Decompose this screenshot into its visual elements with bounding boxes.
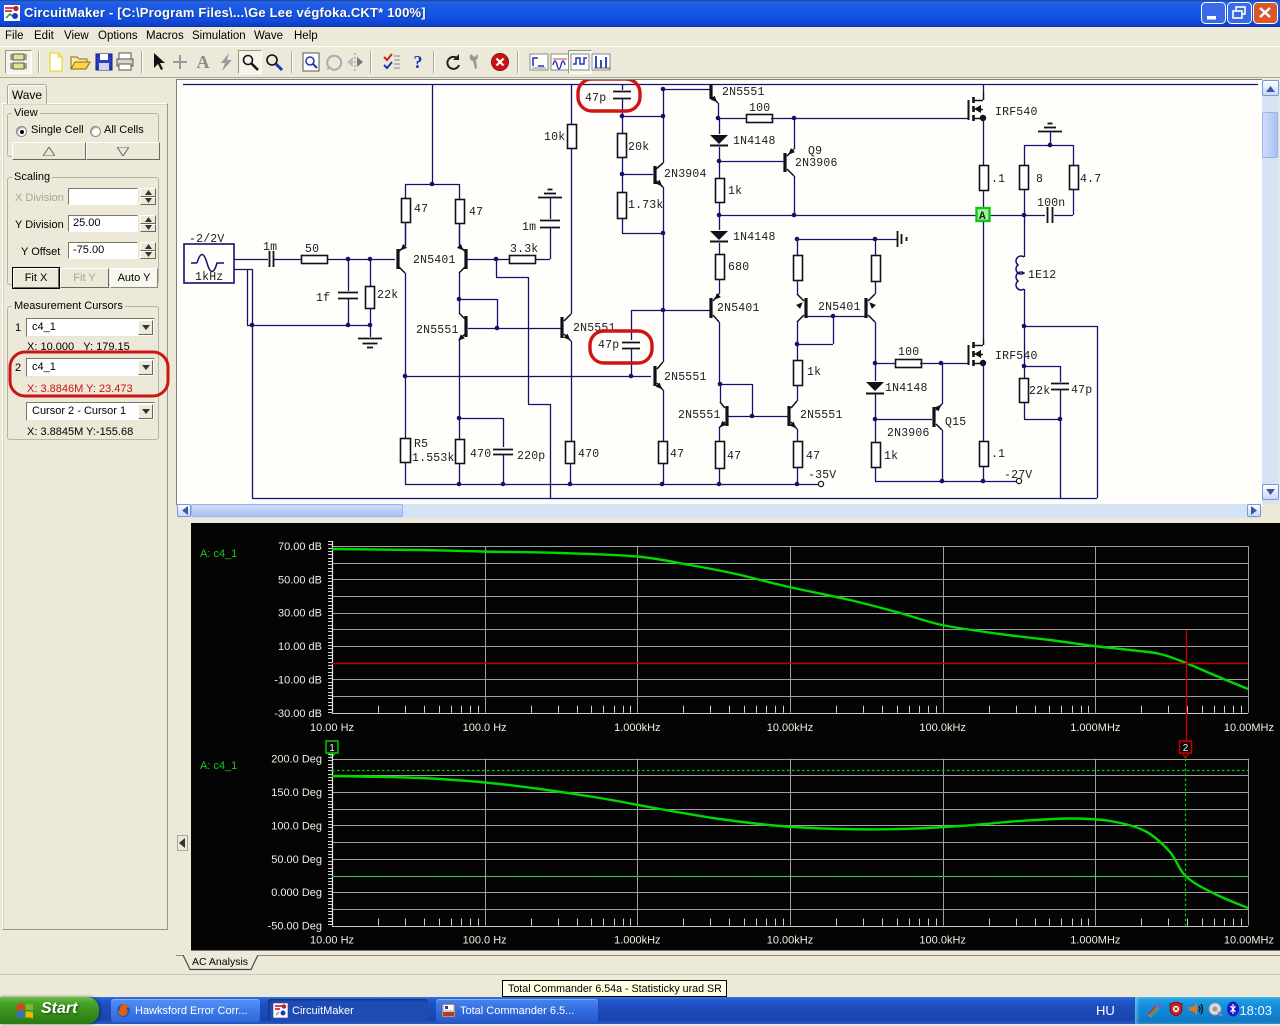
svg-text:47p: 47p	[585, 92, 606, 105]
svg-text:10.00 Hz: 10.00 Hz	[310, 722, 354, 734]
svg-text:1.000kHz: 1.000kHz	[614, 935, 660, 947]
svg-text:470: 470	[470, 448, 491, 461]
svg-text:2N5551: 2N5551	[800, 409, 843, 422]
svg-text:4.7: 4.7	[1080, 173, 1101, 186]
svg-text:1kHz: 1kHz	[195, 271, 223, 284]
svg-text:-10.00 dB: -10.00 dB	[274, 674, 322, 686]
svg-text:.1: .1	[991, 173, 1005, 186]
svg-text:-2/2V: -2/2V	[189, 233, 225, 246]
svg-text:47p: 47p	[598, 339, 619, 352]
svg-text:22k: 22k	[1029, 385, 1050, 398]
svg-text:10.00 Hz: 10.00 Hz	[310, 935, 354, 947]
svg-text:1k: 1k	[728, 185, 742, 198]
svg-text:-30.00 dB: -30.00 dB	[274, 708, 322, 720]
svg-text:100.0 Deg: 100.0 Deg	[271, 820, 322, 832]
svg-text:100.0kHz: 100.0kHz	[919, 722, 965, 734]
svg-text:A: c4_1: A: c4_1	[200, 548, 237, 560]
svg-text:1.73k: 1.73k	[628, 199, 664, 212]
svg-text:-50.00 Deg: -50.00 Deg	[268, 921, 322, 933]
svg-text:100n: 100n	[1037, 197, 1065, 210]
svg-text:-35V: -35V	[808, 469, 836, 482]
svg-text:1E12: 1E12	[1028, 269, 1056, 282]
svg-text:2: 2	[1183, 743, 1189, 754]
svg-text:1.000MHz: 1.000MHz	[1070, 935, 1120, 947]
svg-text:2N5551: 2N5551	[416, 324, 459, 337]
svg-text:3.3k: 3.3k	[510, 243, 538, 256]
svg-text:1.553k: 1.553k	[412, 452, 455, 465]
svg-text:50: 50	[305, 243, 319, 256]
svg-text:10.00kHz: 10.00kHz	[767, 935, 813, 947]
svg-text:50.00 Deg: 50.00 Deg	[271, 854, 322, 866]
svg-text:47: 47	[670, 448, 684, 461]
svg-text:1f: 1f	[316, 292, 330, 305]
svg-text:1k: 1k	[884, 450, 898, 463]
svg-text:220p: 220p	[517, 450, 545, 463]
svg-text:100.0 Hz: 100.0 Hz	[463, 935, 507, 947]
svg-text:1m: 1m	[263, 241, 277, 254]
svg-text:22k: 22k	[377, 289, 398, 302]
svg-text:8: 8	[1036, 173, 1043, 186]
svg-text:47: 47	[469, 206, 483, 219]
svg-text:A: A	[979, 211, 986, 223]
svg-text:10k: 10k	[544, 131, 565, 144]
svg-text:.1: .1	[991, 448, 1005, 461]
svg-text:10.00MHz: 10.00MHz	[1224, 722, 1274, 734]
svg-text:10.00MHz: 10.00MHz	[1224, 935, 1274, 947]
svg-text:2N3906: 2N3906	[795, 157, 838, 170]
svg-text:2N5551: 2N5551	[722, 86, 765, 99]
svg-text:-27V: -27V	[1004, 469, 1032, 482]
svg-text:2N3904: 2N3904	[664, 168, 707, 181]
svg-text:1N4148: 1N4148	[733, 231, 776, 244]
svg-text:1.000kHz: 1.000kHz	[614, 722, 660, 734]
svg-text:100.0kHz: 100.0kHz	[919, 935, 965, 947]
svg-text:2N5401: 2N5401	[413, 254, 456, 267]
svg-text:47p: 47p	[1071, 384, 1092, 397]
svg-text:47: 47	[414, 203, 428, 216]
svg-text:IRF540: IRF540	[995, 350, 1038, 363]
svg-text:10.00 dB: 10.00 dB	[278, 641, 322, 653]
svg-text:2N5551: 2N5551	[678, 409, 721, 422]
svg-text:30.00 dB: 30.00 dB	[278, 608, 322, 620]
svg-text:47: 47	[727, 450, 741, 463]
svg-text:100: 100	[898, 346, 919, 359]
svg-text:1k: 1k	[807, 366, 821, 379]
svg-text:150.0 Deg: 150.0 Deg	[271, 787, 322, 799]
svg-text:IRF540: IRF540	[995, 106, 1038, 119]
svg-text:0.000 Deg: 0.000 Deg	[271, 887, 322, 899]
svg-text:10.00kHz: 10.00kHz	[767, 722, 813, 734]
svg-text:100: 100	[749, 102, 770, 115]
svg-text:R5: R5	[414, 438, 428, 451]
svg-text:2N3906: 2N3906	[887, 427, 930, 440]
svg-text:50.00 dB: 50.00 dB	[278, 574, 322, 586]
svg-text:2N5551: 2N5551	[664, 371, 707, 384]
svg-text:47: 47	[806, 450, 820, 463]
svg-text:A: A	[197, 52, 210, 72]
svg-text:1: 1	[329, 743, 335, 754]
svg-text:100.0 Hz: 100.0 Hz	[463, 722, 507, 734]
svg-text:Q15: Q15	[945, 416, 966, 429]
svg-text:200.0 Deg: 200.0 Deg	[271, 754, 322, 766]
svg-text:1N4148: 1N4148	[733, 135, 776, 148]
svg-text:1m: 1m	[522, 221, 536, 234]
svg-text:2N5401: 2N5401	[818, 301, 861, 314]
svg-text:470: 470	[578, 448, 599, 461]
svg-text:?: ?	[414, 52, 423, 72]
svg-text:70.00 dB: 70.00 dB	[278, 541, 322, 553]
svg-text:680: 680	[728, 261, 749, 274]
svg-text:1N4148: 1N4148	[885, 382, 928, 395]
svg-text:20k: 20k	[628, 141, 649, 154]
svg-text:A: c4_1: A: c4_1	[200, 760, 237, 772]
svg-text:1.000MHz: 1.000MHz	[1070, 722, 1120, 734]
svg-text:2N5401: 2N5401	[717, 302, 760, 315]
